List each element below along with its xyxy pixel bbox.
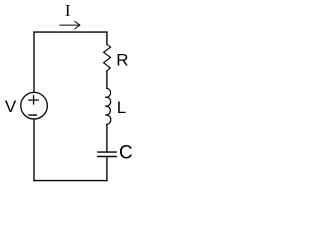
svg-text:V: V bbox=[5, 97, 17, 116]
wire below C bbox=[106, 157, 108, 180]
voltage source V circle bbox=[21, 92, 48, 119]
minus sign bbox=[29, 114, 36, 116]
wire left lower bbox=[33, 119, 35, 181]
svg-text:R: R bbox=[116, 51, 128, 70]
svg-text:L: L bbox=[117, 98, 126, 117]
svg-text:I: I bbox=[65, 1, 71, 20]
wire right upper bbox=[106, 32, 108, 44]
plus sign bbox=[29, 99, 38, 101]
capacitor C bottom plate bbox=[98, 156, 116, 158]
resistor R zigzag bbox=[104, 44, 111, 71]
capacitor C top plate bbox=[98, 151, 116, 153]
wire left upper bbox=[33, 32, 35, 92]
wire bottom bbox=[34, 180, 107, 182]
wire top bbox=[34, 31, 107, 33]
wire between R and L bbox=[106, 71, 108, 88]
svg-text:C: C bbox=[119, 143, 133, 164]
current arrow bbox=[60, 24, 79, 26]
inductor L coil bbox=[105, 88, 111, 124]
wire between L and C bbox=[106, 124, 108, 151]
